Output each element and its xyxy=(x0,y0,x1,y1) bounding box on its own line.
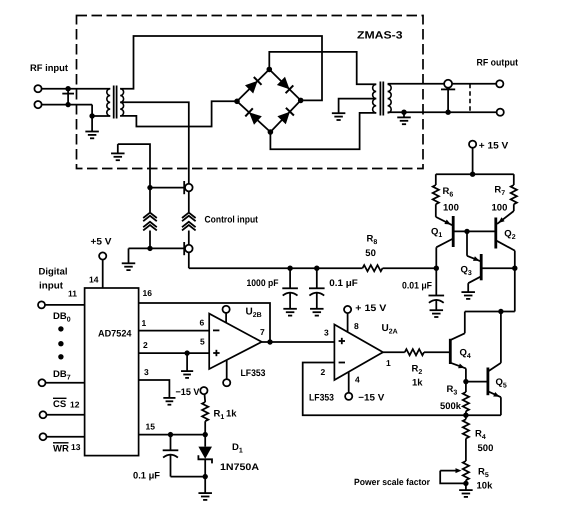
label 100 left xyxy=(443,203,459,214)
svg-text:WR: WR xyxy=(53,444,69,455)
svg-text:500k: 500k xyxy=(440,401,462,412)
svg-text:4: 4 xyxy=(355,375,360,385)
svg-text:5: 5 xyxy=(200,337,205,347)
label Control input xyxy=(205,214,259,225)
node dot Q3 base at Q2 collector xyxy=(512,266,517,271)
label R4 xyxy=(475,429,486,441)
transistor Q3 xyxy=(467,231,515,292)
pin label 15 xyxy=(146,422,156,432)
U2B V- pin circle xyxy=(223,360,230,386)
diode CR3 (bottom-right edge of ring) xyxy=(277,108,294,125)
label R6 xyxy=(443,186,454,198)
svg-text:+5 V: +5 V xyxy=(91,237,113,248)
label +15 V top xyxy=(479,141,509,152)
wire DAC pin2 to U2B pin5 xyxy=(139,352,210,354)
svg-text:RF input: RF input xyxy=(30,63,69,74)
transformer T1 primary winding xyxy=(107,89,110,116)
svg-text:−15 V: −15 V xyxy=(176,387,201,398)
label RF input xyxy=(30,63,69,74)
svg-text:100: 100 xyxy=(492,203,508,214)
ground at D1 xyxy=(198,477,212,500)
pin label 11 xyxy=(68,289,77,299)
wire bridge edge bottom-left xyxy=(237,101,270,132)
node dot T2 secondary bottom ground tap xyxy=(401,110,406,115)
op-amp U2A triangle xyxy=(334,325,383,381)
wire lower control node xyxy=(129,247,185,249)
transistor Q1 xyxy=(436,216,453,268)
svg-text:2: 2 xyxy=(143,340,148,350)
resistor R8 element xyxy=(363,265,383,271)
label -15 V U2A xyxy=(358,393,385,404)
pin label 1 U2A xyxy=(386,358,391,368)
label 10k xyxy=(477,481,494,492)
label LF353 lower xyxy=(309,393,334,404)
diode CR1 (left-top edge of ring) xyxy=(245,77,262,94)
pin label 12 xyxy=(70,400,80,410)
label +5 V xyxy=(91,237,113,248)
wire +15V rail xyxy=(436,173,514,175)
pin label 4 xyxy=(355,375,360,385)
node dot pin15 R1/D1 xyxy=(203,432,208,437)
resistor R7 element xyxy=(511,174,517,211)
svg-text:500: 500 xyxy=(478,443,494,454)
wire T2 primary center tap to ground xyxy=(339,99,377,113)
node dot control line C2 xyxy=(314,266,319,271)
svg-text:LF353: LF353 xyxy=(309,393,334,404)
wire R5 wiper xyxy=(440,468,466,483)
svg-text:10k: 10k xyxy=(477,481,494,492)
ground at R5 xyxy=(459,483,473,497)
wire U2B output to U2A input xyxy=(262,341,335,343)
svg-text:+ 15 V: + 15 V xyxy=(355,303,387,314)
svg-text:1k: 1k xyxy=(412,378,423,389)
U2A minus sign xyxy=(339,362,345,364)
label Q4 xyxy=(460,348,471,360)
label R2 xyxy=(412,364,423,376)
inductor RFC2 (right choke) xyxy=(182,192,196,245)
terminal +5V xyxy=(99,252,106,259)
capacitor C1 1000 pF xyxy=(282,268,298,308)
U2A V- circle and -15V xyxy=(345,372,352,400)
wire DB7 xyxy=(46,382,85,384)
label D1 xyxy=(232,442,243,454)
wire bridge edge left-top xyxy=(237,69,269,101)
terminal +15V supply xyxy=(469,141,476,148)
label WR with overline xyxy=(53,443,69,455)
diode CR2 (top-right edge of ring) xyxy=(277,77,293,93)
label Q2 xyxy=(504,229,515,241)
feedthrough connector FT2 (control input lower) xyxy=(184,242,192,255)
terminal -15V xyxy=(200,387,207,394)
svg-text:0.1 μF: 0.1 μF xyxy=(329,278,358,289)
pin label 7 xyxy=(260,327,265,337)
svg-text:AD7524: AD7524 xyxy=(98,329,132,340)
label DB7 xyxy=(53,369,71,381)
transformer T2 core xyxy=(380,82,383,116)
op-amp U2B triangle xyxy=(209,314,262,369)
node dot control line at Q1 collector xyxy=(434,266,439,271)
node dot U2B pin5 ground tap xyxy=(184,350,189,355)
svg-text:1k: 1k xyxy=(226,409,237,420)
wire bridge edge bottom-right xyxy=(270,100,300,132)
svg-text:Digital: Digital xyxy=(39,267,68,278)
svg-text:LF353: LF353 xyxy=(241,368,266,379)
pin label 13 xyxy=(71,442,81,452)
terminal DB0 xyxy=(38,301,45,308)
diode D1 zener 1N750A xyxy=(198,435,212,477)
wire T1 secondary center tap down to control feedthrough xyxy=(120,102,189,184)
svg-text:−15 V: −15 V xyxy=(358,393,385,404)
node dot +15V rail xyxy=(470,172,475,177)
node A junction dot on RF input top line xyxy=(65,86,70,91)
pin label 14 xyxy=(89,275,99,285)
pin label 6 xyxy=(200,318,205,328)
ground at C4 xyxy=(430,310,444,317)
svg-text:1: 1 xyxy=(386,358,391,368)
label RF output xyxy=(477,58,519,69)
label 50 xyxy=(365,248,376,259)
wire pin3 to ground xyxy=(139,380,170,398)
wire bridge top node to T2 primary top xyxy=(269,52,376,84)
terminal WR xyxy=(40,433,47,440)
terminal J1a RF input top xyxy=(34,85,41,92)
wire DAC pin1 to U2B pin6 xyxy=(139,330,210,332)
ground at lower control node xyxy=(122,248,136,270)
label R3 xyxy=(447,384,458,396)
node dot upper control xyxy=(147,185,152,190)
label -15 V left xyxy=(176,387,201,398)
svg-text:13: 13 xyxy=(71,442,81,452)
ground at Q3 collector xyxy=(461,292,475,299)
label 500 xyxy=(478,443,494,454)
label Digital input xyxy=(39,267,68,292)
svg-text:Power scale factor: Power scale factor xyxy=(354,477,430,487)
svg-text:1: 1 xyxy=(142,318,147,328)
dashed enclosure box (ZMAS-3 module outline) xyxy=(77,16,424,169)
svg-text:0.1 μF: 0.1 μF xyxy=(133,471,160,482)
terminal J1b RF input bottom xyxy=(34,101,41,108)
wire T1 secondary top to bridge right node xyxy=(120,36,322,100)
feedthrough connector FT1 (control input upper) xyxy=(184,181,192,194)
label R1 1k xyxy=(214,409,238,421)
ground at U2B noninverting input xyxy=(181,353,193,378)
svg-text:1000 pF: 1000 pF xyxy=(247,278,279,289)
ellipsis dots digital bus xyxy=(58,326,63,359)
transistor Q5 xyxy=(488,312,501,416)
wire RF input bottom line xyxy=(42,105,111,116)
svg-text:3: 3 xyxy=(324,328,329,338)
capacitor feedthrough at RF output xyxy=(441,80,455,112)
label 100 right xyxy=(492,203,508,214)
ground inside module at upper control node xyxy=(111,144,125,160)
svg-text:0.01 μF: 0.01 μF xyxy=(402,281,432,292)
node C junction dot at T1 primary bottom xyxy=(89,113,94,118)
wire T2 secondary bottom line xyxy=(388,111,497,113)
wire U2A output xyxy=(383,351,449,353)
node dot R3/R4/feedback junction xyxy=(463,413,468,418)
pin label 2 left xyxy=(143,340,148,350)
wire U2B feedback from DAC pin16 xyxy=(139,303,270,342)
wire mirror output rail xyxy=(465,311,515,313)
ground at T2 center tap xyxy=(332,113,346,120)
ground at C2 xyxy=(310,309,324,316)
U2A V+ circle and +15V xyxy=(344,306,351,332)
inductor RFC1 (left choke) xyxy=(143,188,157,249)
ground at DAC pin3 xyxy=(163,398,175,405)
label Q5 xyxy=(496,377,507,389)
label 0.1 uF C3 xyxy=(133,471,160,482)
transformer T2 secondary winding xyxy=(388,84,392,113)
label CS with overline xyxy=(53,398,67,410)
svg-text:ZMAS-3: ZMAS-3 xyxy=(357,30,403,42)
U2B plus sign xyxy=(213,350,219,356)
svg-text:6: 6 xyxy=(200,318,205,328)
label DB0 xyxy=(53,311,71,323)
svg-text:100: 100 xyxy=(443,203,459,214)
diode CR4 (bottom-left edge of ring) xyxy=(245,108,261,125)
node B junction dot on RF input bottom line xyxy=(65,102,70,107)
wire pin14 xyxy=(102,260,104,288)
svg-text:12: 12 xyxy=(70,400,80,410)
wire +15V stem xyxy=(472,148,474,174)
svg-text:Control input: Control input xyxy=(205,214,259,225)
label U2A xyxy=(382,323,398,335)
ground at C1 xyxy=(283,309,297,316)
wire ground link to upper control node xyxy=(118,144,150,188)
label Q3 xyxy=(461,265,472,277)
label AD7524 xyxy=(98,329,132,340)
ground at RF input xyxy=(85,116,99,138)
wire Q5 base xyxy=(466,381,488,383)
wire WR pin13 xyxy=(47,436,85,438)
resistor R5 element (potentiometer) xyxy=(463,461,469,483)
wire C3 to D1 anode xyxy=(171,476,206,478)
capacitor C2 0.1 uF xyxy=(309,268,325,308)
resistor R3 element xyxy=(463,382,469,416)
transformer T1 core xyxy=(114,86,117,119)
label Q1 xyxy=(431,227,442,239)
wire upper control node to feedthrough FT1 xyxy=(150,187,184,189)
svg-text:14: 14 xyxy=(89,275,99,285)
transformer T2 primary winding xyxy=(373,84,377,113)
wire feedback line U2A xyxy=(303,363,501,416)
node dot U2B output xyxy=(267,339,272,344)
terminal CS xyxy=(40,411,47,418)
node dot base rail xyxy=(464,229,469,234)
label 1N750A xyxy=(220,462,259,473)
label R5 xyxy=(478,467,489,479)
label Power scale factor xyxy=(354,477,430,487)
pin label 5 xyxy=(200,337,205,347)
svg-text:input: input xyxy=(39,281,64,292)
node dot Q4 emitter / Q5 base / R3 xyxy=(463,379,468,384)
label 1000 pF xyxy=(247,278,279,289)
terminal DB7 xyxy=(39,379,46,386)
label ZMAS-3 xyxy=(357,30,403,42)
resistor R2 element xyxy=(405,349,424,355)
svg-text:2: 2 xyxy=(321,367,326,377)
label LF353 upper xyxy=(241,368,266,379)
terminal J2a RF output top xyxy=(496,80,503,87)
node bridge bottom xyxy=(268,129,274,135)
transistor Q2 xyxy=(496,211,515,312)
IC U1 AD7524 box xyxy=(85,288,139,456)
svg-text:3: 3 xyxy=(144,367,149,377)
node dot pin15 cap xyxy=(168,432,173,437)
node dot R5 bottom xyxy=(463,481,468,486)
transformer T1 secondary winding xyxy=(120,89,123,116)
node bridge left xyxy=(234,99,240,105)
svg-text:16: 16 xyxy=(143,288,153,298)
U2B minus sign xyxy=(213,329,219,331)
wire bridge edge top-right xyxy=(269,69,300,100)
pin label 3 DAC xyxy=(144,367,149,377)
svg-text:RF output: RF output xyxy=(477,58,519,69)
capacitor C3 0.1 uF xyxy=(163,435,179,477)
node dot control line C1 xyxy=(287,266,292,271)
label 500k xyxy=(440,401,462,412)
pin label 2 U2A xyxy=(321,367,326,377)
node bridge top xyxy=(267,67,273,73)
pin label 3 U2A xyxy=(324,328,329,338)
wire RF input top line xyxy=(42,88,111,90)
U2B V+ pin circle xyxy=(223,306,230,323)
capacitor feedthrough plate at RF input xyxy=(62,89,74,105)
resistor R1 element xyxy=(202,394,208,434)
label R7 xyxy=(494,185,505,197)
label 0.01 uF xyxy=(402,281,432,292)
transistor Q4 xyxy=(450,312,466,382)
U2A plus sign xyxy=(339,338,345,344)
pin label 16 xyxy=(143,288,153,298)
node dot rail to Q5 collector xyxy=(498,309,503,314)
svg-text:7: 7 xyxy=(260,327,265,337)
resistor R6 element xyxy=(433,174,439,217)
label U2B xyxy=(246,307,262,319)
node bridge right xyxy=(298,98,304,104)
wire control line xyxy=(189,252,436,268)
svg-text:15: 15 xyxy=(146,422,156,432)
svg-text:+ 15 V: + 15 V xyxy=(479,141,509,152)
wire pin15 line xyxy=(139,434,206,436)
resistor R4 element xyxy=(463,415,469,461)
label 1k R2 xyxy=(412,378,423,389)
svg-text:CS: CS xyxy=(53,399,66,410)
pin label 1 xyxy=(142,318,147,328)
label +15 V U2A xyxy=(355,303,387,314)
wire CS pin12 xyxy=(47,414,85,416)
wire DB0 xyxy=(45,304,85,306)
wire bridge bottom node to T2 primary bottom xyxy=(270,113,376,149)
label R8 xyxy=(367,234,378,246)
node dot feedthrough to bottom line xyxy=(445,110,450,115)
node dot D1 anode xyxy=(203,474,208,479)
capacitor C4 0.01 uF xyxy=(429,268,445,310)
svg-text:1N750A: 1N750A xyxy=(220,462,259,473)
wire T1 secondary bottom to bridge left node xyxy=(120,101,234,126)
svg-text:11: 11 xyxy=(68,289,77,299)
svg-text:8: 8 xyxy=(354,321,359,331)
dashed shield line at RF output xyxy=(469,84,471,112)
pin label 8 xyxy=(354,321,359,331)
svg-text:50: 50 xyxy=(365,248,376,259)
node dot lower control xyxy=(147,246,152,251)
terminal J2b RF output bottom xyxy=(497,109,504,116)
label 0.1 uF xyxy=(329,278,358,289)
ground at T2 secondary bottom xyxy=(397,112,411,124)
wire Q1-Q2 base rail xyxy=(453,230,496,232)
wire T2 secondary top to RF output xyxy=(388,83,497,85)
